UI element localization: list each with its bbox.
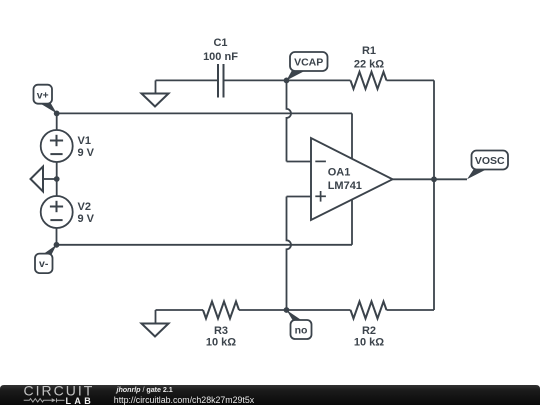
svg-text:R1: R1 — [362, 45, 376, 57]
capacitor C1 — [218, 64, 224, 98]
svg-text:OA1: OA1 — [328, 167, 351, 179]
node dot left ground — [54, 176, 60, 182]
ground bottom — [142, 310, 169, 337]
ground top — [142, 80, 169, 106]
node dot output junction — [431, 176, 437, 182]
svg-text:jhonrlp / gate 2.1: jhonrlp / gate 2.1 — [116, 385, 173, 394]
node dot no — [284, 307, 290, 313]
svg-text:100 nF: 100 nF — [203, 51, 238, 63]
svg-text:LM741: LM741 — [328, 180, 362, 192]
wire R3 to node no — [239, 309, 287, 311]
flag VOSC — [467, 151, 508, 180]
svg-text:22 kΩ: 22 kΩ — [354, 59, 384, 71]
svg-text:10 kΩ: 10 kΩ — [354, 336, 384, 348]
wire C1 right to VCAP node — [224, 79, 287, 81]
wire minus input horizontal — [287, 161, 312, 163]
svg-text:10 kΩ: 10 kΩ — [206, 336, 236, 348]
svg-text:C1: C1 — [213, 37, 227, 49]
wire VCAP bus down with hop over v+ — [287, 80, 292, 161]
wire V1 bottom to V2 top — [56, 162, 58, 196]
resistor R1 — [351, 72, 387, 89]
svg-text:http://circuitlab.com/ch28k27m: http://circuitlab.com/ch28k27m29t5x — [114, 395, 255, 405]
svg-text:v+: v+ — [37, 90, 49, 102]
wire v- horizontal — [57, 244, 353, 246]
svg-text:9 V: 9 V — [78, 147, 95, 159]
svg-text:V2: V2 — [78, 201, 91, 213]
voltage source V2 — [41, 196, 73, 228]
wire v+ power stub down to op-amp top edge — [351, 113, 353, 158]
svg-text:V1: V1 — [78, 135, 91, 147]
node dot v- — [54, 242, 60, 248]
node dot v+ — [54, 111, 60, 117]
wire top rail left of C1 — [156, 79, 219, 81]
svg-text:9 V: 9 V — [78, 213, 95, 225]
svg-text:v-: v- — [39, 258, 49, 270]
wire R2 to bottom-right corner — [387, 309, 435, 311]
svg-text:LAB: LAB — [66, 396, 95, 405]
wire right bus vertical — [433, 80, 435, 310]
wire V2 bottom to v- node — [56, 228, 58, 245]
flag no — [287, 310, 312, 339]
wire R1 to top-right corner — [387, 79, 435, 81]
resistor R3 — [203, 302, 239, 319]
svg-text:R2: R2 — [362, 325, 376, 337]
svg-text:VOSC: VOSC — [475, 155, 505, 167]
footer bar — [0, 385, 540, 405]
node dot VCAP — [284, 78, 290, 84]
wire VCAP node to R1 — [287, 79, 351, 81]
wire v+ horizontal — [57, 112, 352, 114]
svg-text:R3: R3 — [214, 325, 228, 337]
flag v+ — [34, 85, 57, 114]
svg-text:no: no — [295, 324, 308, 336]
flag v- — [35, 245, 57, 273]
resistor R2 — [351, 302, 387, 319]
svg-text:VCAP: VCAP — [294, 56, 323, 68]
wire v- power stub up to op-amp bottom edge — [351, 200, 353, 245]
wire V1 top pin — [56, 113, 58, 130]
op-amp OA1 — [311, 138, 393, 220]
flag VCAP — [287, 52, 328, 80]
wire node no to R2 — [287, 309, 351, 311]
wire plus input bus down with hop over v- to node no — [287, 197, 292, 311]
wire bottom rail ground to R3 — [156, 309, 204, 311]
wire op-amp output — [393, 178, 468, 180]
ground left arrow — [31, 167, 57, 192]
logo squiggle (resistor + diode) — [24, 398, 65, 402]
voltage source V1 — [41, 130, 73, 162]
wire plus input horizontal — [287, 196, 312, 198]
